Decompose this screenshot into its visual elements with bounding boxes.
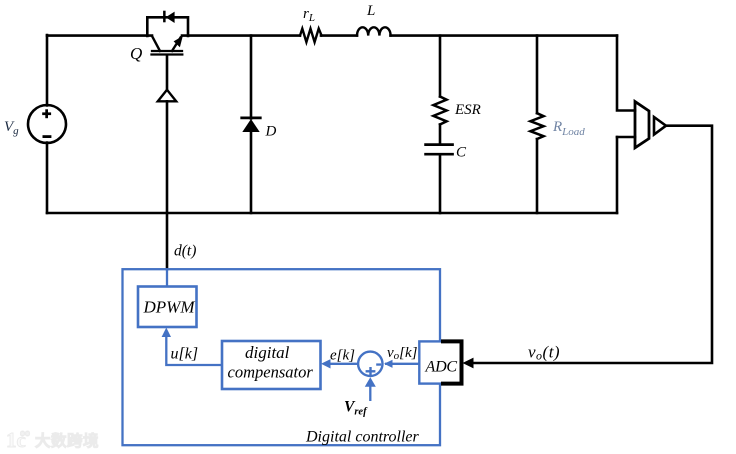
svg-text:vo(t): vo(t) bbox=[528, 343, 560, 363]
svg-text:Q: Q bbox=[130, 44, 142, 63]
svg-text:Vref: Vref bbox=[344, 399, 368, 418]
svg-text:C: C bbox=[456, 145, 467, 161]
svg-text:e[k]: e[k] bbox=[330, 348, 355, 364]
svg-text:D: D bbox=[265, 124, 277, 140]
svg-text:rL: rL bbox=[303, 6, 315, 24]
svg-text:RLoad: RLoad bbox=[552, 119, 585, 138]
svg-text:ESR: ESR bbox=[454, 102, 481, 118]
svg-text:Digital controller: Digital controller bbox=[305, 429, 420, 446]
svg-text:u[k]: u[k] bbox=[171, 346, 199, 363]
svg-text:ADC: ADC bbox=[425, 359, 458, 376]
svg-text:L: L bbox=[366, 3, 375, 19]
svg-text:compensator: compensator bbox=[228, 363, 314, 382]
svg-text:vo[k]: vo[k] bbox=[387, 345, 418, 362]
svg-text:大数跨境: 大数跨境 bbox=[35, 431, 99, 450]
svg-text:digital: digital bbox=[245, 343, 290, 362]
svg-text:oo: oo bbox=[20, 428, 30, 439]
svg-text:Vg: Vg bbox=[4, 119, 19, 137]
svg-text:d(t): d(t) bbox=[174, 243, 196, 260]
svg-text:DPWM: DPWM bbox=[143, 298, 196, 317]
